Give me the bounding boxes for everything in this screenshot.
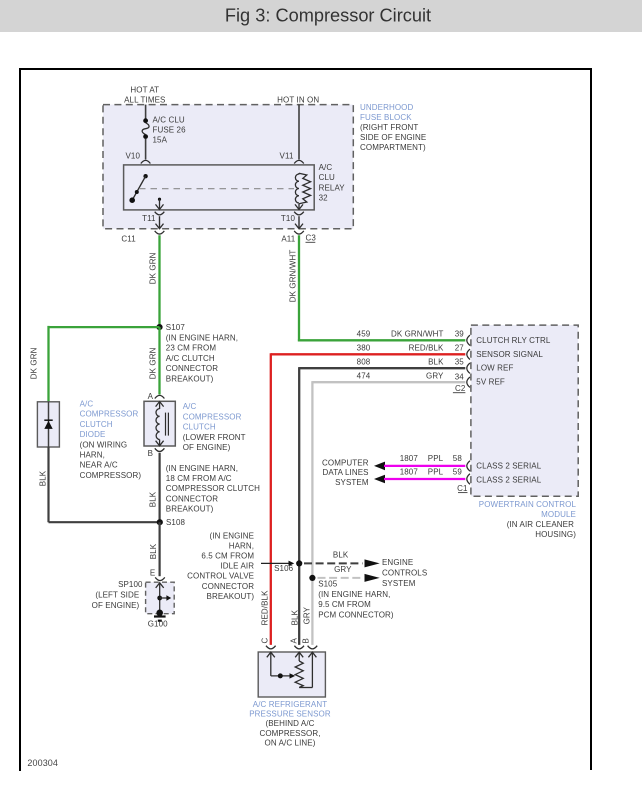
pin 59 [453,467,542,484]
svg-text:SENSOR SIGNAL: SENSOR SIGNAL [476,350,543,359]
svg-text:IDLE AIR: IDLE AIR [220,562,254,571]
svg-text:HARN,: HARN, [80,451,105,460]
svg-text:C3: C3 [306,234,317,243]
svg-text:9.5 CM FROM: 9.5 CM FROM [318,600,371,609]
svg-text:DK GRN/WHT: DK GRN/WHT [289,250,298,303]
svg-text:808: 808 [357,357,371,366]
pin 58 [453,454,542,471]
relay box A/C CLU RELAY 32 [124,163,346,210]
ground G100 [148,617,168,629]
svg-text:A: A [148,392,154,401]
wire PPL 1807 to pin 58 [374,454,465,470]
svg-text:A/C: A/C [319,163,333,172]
wire RED/BLK 380 to pin 27 [271,343,466,354]
splice S108 [157,518,186,527]
svg-text:SP100: SP100 [118,580,143,589]
connector V10 [125,152,150,177]
splice S105 [309,575,394,619]
PCM box (POWERTRAIN CONTROL MODULE) [471,325,578,539]
svg-text:(IN ENGINE HARN,: (IN ENGINE HARN, [166,464,238,473]
splice pack SP100 box [92,580,175,616]
svg-text:GRY: GRY [303,606,312,624]
svg-text:S106: S106 [274,564,294,573]
svg-text:A/C CLUTCH: A/C CLUTCH [166,354,215,363]
svg-text:GRY: GRY [426,371,444,380]
svg-text:6.5 CM FROM: 6.5 CM FROM [201,552,254,561]
diode label text [80,399,142,480]
connector A (clutch) [148,392,165,401]
connector T10 [281,212,304,229]
harness note at clutch B [166,464,260,514]
wire BLK diode to S108 [39,447,160,522]
svg-text:27: 27 [455,343,465,352]
svg-text:HOT IN ON: HOT IN ON [277,95,319,104]
svg-text:V11: V11 [280,152,294,161]
svg-text:COMPRESSOR CLUTCH: COMPRESSOR CLUTCH [166,484,260,493]
svg-text:C: C [261,638,270,644]
pin 35 [455,357,514,373]
wire DK GRN S107 to clutch A [149,327,160,394]
relay coil [295,173,311,210]
sensor pin C [261,638,276,649]
engine controls system node [382,558,427,588]
pin 39 [455,329,551,345]
svg-text:1807: 1807 [400,454,419,463]
clutch coil symbol [156,409,169,446]
svg-text:39: 39 [455,329,465,338]
svg-text:DIODE: DIODE [80,430,106,439]
svg-text:DK GRN/WHT: DK GRN/WHT [391,329,444,338]
svg-text:CLU: CLU [319,173,335,182]
svg-text:ON A/C LINE): ON A/C LINE) [265,739,316,748]
fuse block box (UNDERHOOD FUSE BLOCK) [103,103,426,229]
svg-text:CLUTCH: CLUTCH [80,420,113,429]
svg-text:5V REF: 5V REF [476,378,505,387]
svg-text:POWERTRAIN CONTROL: POWERTRAIN CONTROL [479,500,577,509]
wire BLK 808 to pin 35 [299,357,465,368]
svg-text:1807: 1807 [400,467,419,476]
sensor pin A [290,638,305,649]
svg-text:380: 380 [357,343,371,352]
wire DK GRN C11 to S107 [149,235,160,327]
svg-text:ALL TIMES: ALL TIMES [124,95,165,104]
svg-text:COMPRESSOR): COMPRESSOR) [80,471,142,480]
svg-text:COMPRESSOR,: COMPRESSOR, [259,729,320,738]
sensor wiper branch [271,673,295,678]
dashed GRY branch to engine controls [318,565,380,582]
svg-text:DATA LINES: DATA LINES [323,468,369,477]
svg-text:UNDERHOOD: UNDERHOOD [360,103,413,112]
svg-text:SYSTEM: SYSTEM [382,579,416,588]
svg-text:BLK: BLK [290,609,299,625]
fuse A/C CLU FUSE 26 15A [142,116,186,145]
svg-text:G100: G100 [148,620,168,629]
svg-text:CLUTCH: CLUTCH [183,423,216,432]
svg-text:Fig 3: Compressor Circuit: Fig 3: Compressor Circuit [225,6,431,26]
pin 27 [455,343,544,359]
sensor resistor [295,661,312,688]
clutch label text [183,402,246,452]
svg-text:CONTROL VALVE: CONTROL VALVE [187,572,254,581]
svg-text:BLK: BLK [149,491,158,507]
pressure sensor box [258,652,325,697]
svg-text:23 CM FROM: 23 CM FROM [166,344,217,353]
svg-text:15A: 15A [153,135,168,144]
svg-text:LOW REF: LOW REF [476,364,513,373]
svg-text:PPL: PPL [428,454,444,463]
svg-text:HARN,: HARN, [229,541,254,550]
diode box (A/C COMPRESSOR CLUTCH DIODE) [37,402,59,447]
svg-text:NEAR A/C: NEAR A/C [80,461,118,470]
relay switch [129,174,147,203]
svg-text:HOUSING): HOUSING) [535,530,576,539]
svg-text:BREAKOUT): BREAKOUT) [166,374,214,383]
svg-text:(LOWER FRONT: (LOWER FRONT [183,433,246,442]
svg-text:A: A [290,638,299,644]
wire GRY 474 to pin 34 [312,371,465,382]
connector label C1 [457,484,468,493]
connector V11 [280,105,304,174]
sensor pin B [301,638,317,649]
svg-text:GRY: GRY [334,565,352,574]
svg-text:FUSE BLOCK: FUSE BLOCK [360,113,412,122]
svg-text:DK GRN: DK GRN [149,347,158,379]
svg-text:(IN ENGINE: (IN ENGINE [210,531,255,540]
svg-text:T10: T10 [281,214,296,223]
svg-text:C11: C11 [121,235,136,244]
svg-text:SYSTEM: SYSTEM [335,478,369,487]
svg-text:CONNECTOR: CONNECTOR [166,494,218,503]
svg-text:CLASS 2 SERIAL: CLASS 2 SERIAL [476,475,541,484]
svg-text:V10: V10 [125,152,140,161]
connector C11 [121,231,164,244]
svg-text:(RIGHT FRONT: (RIGHT FRONT [360,123,418,132]
connector T11 [142,212,164,229]
svg-text:35: 35 [455,357,465,366]
svg-text:A/C: A/C [80,399,94,408]
svg-text:C1: C1 [457,484,468,493]
svg-text:S107: S107 [166,323,186,332]
svg-text:PCM CONNECTOR): PCM CONNECTOR) [318,610,394,619]
clutch box A/C COMPRESSOR CLUTCH [144,401,175,446]
svg-text:34: 34 [455,373,465,382]
svg-text:RED/BLK: RED/BLK [409,343,444,352]
wire fuse to V10 [145,139,147,160]
wire BLK clutch B to S108 [149,453,160,522]
pin 34 [455,373,505,388]
wire DK GRN/WHT 459 to pin 39 [298,329,465,340]
svg-text:RELAY: RELAY [319,183,346,192]
svg-text:BREAKOUT): BREAKOUT) [166,505,214,514]
harness note pointing to S106 [187,531,294,601]
wire BLK vertical to sensor A [290,367,299,645]
svg-text:(LEFT SIDE: (LEFT SIDE [95,590,139,599]
connector label C2 [453,384,466,393]
svg-text:474: 474 [357,371,371,380]
svg-text:HOT AT: HOT AT [130,86,159,95]
svg-text:A/C REFRIGERANT: A/C REFRIGERANT [253,700,327,709]
svg-text:COMPRESSOR: COMPRESSOR [183,412,242,421]
wire PPL 1807 to pin 59 [374,467,465,483]
svg-text:COMPRESSOR: COMPRESSOR [80,410,139,419]
svg-text:PRESSURE SENSOR: PRESSURE SENSOR [249,709,331,718]
svg-text:DK GRN: DK GRN [149,252,158,284]
connector label C3 [306,234,317,243]
svg-text:59: 59 [453,467,463,476]
relay switch output to T11 [156,198,164,210]
svg-text:SIDE OF ENGINE: SIDE OF ENGINE [360,133,426,142]
diode symbol [44,420,52,429]
splice S107 [156,323,238,383]
svg-text:BLK: BLK [149,543,158,559]
svg-text:A11: A11 [281,235,295,244]
svg-text:COMPUTER: COMPUTER [322,458,369,467]
svg-text:(IN ENGINE HARN,: (IN ENGINE HARN, [318,590,390,599]
svg-text:FUSE 26: FUSE 26 [153,125,187,134]
wire DK GRN S107 branch left [29,326,159,402]
svg-text:CLASS 2 SERIAL: CLASS 2 SERIAL [476,461,541,470]
page border frame [20,69,591,771]
wire BLK S108 to E [149,522,160,576]
relay actuation dashed line [139,188,294,190]
wire DK GRN/WHT A11 to PCM corner [289,235,300,341]
svg-text:S105: S105 [318,580,338,589]
svg-text:200304: 200304 [27,758,58,768]
wire from fuse block top to fuse F26 [145,105,147,119]
dashed BLK branch to engine controls [304,551,380,568]
title bar [0,0,642,32]
svg-text:CONNECTOR: CONNECTOR [202,582,254,591]
svg-text:CLUTCH RLY CTRL: CLUTCH RLY CTRL [476,336,551,345]
svg-text:58: 58 [453,454,463,463]
connector E [150,569,165,581]
svg-text:PPL: PPL [428,467,444,476]
svg-text:BLK: BLK [39,470,48,486]
svg-text:A/C CLU: A/C CLU [153,116,185,125]
svg-text:B: B [148,449,153,458]
svg-text:COMPARTMENT): COMPARTMENT) [360,143,426,152]
wire GRY vertical to sensor B [303,381,313,645]
connector A11 [281,231,303,244]
svg-text:T11: T11 [142,214,156,223]
svg-text:C2: C2 [455,384,466,393]
svg-text:(IN AIR CLEANER: (IN AIR CLEANER [507,520,574,529]
svg-text:DK GRN: DK GRN [29,347,38,379]
splice S106 [274,560,302,573]
svg-text:(ON WIRING: (ON WIRING [80,440,128,449]
svg-text:CONNECTOR: CONNECTOR [166,364,218,373]
svg-text:MODULE: MODULE [541,510,576,519]
svg-text:S108: S108 [166,518,186,527]
svg-text:B: B [301,638,310,643]
svg-text:CONTROLS: CONTROLS [382,569,427,578]
svg-text:RED/BLK: RED/BLK [260,590,269,625]
sensor label text [249,700,331,748]
svg-text:BLK: BLK [428,357,444,366]
svg-text:(IN ENGINE HARN,: (IN ENGINE HARN, [166,334,238,343]
svg-text:E: E [150,569,155,578]
connector B (clutch) [148,448,165,458]
svg-text:32: 32 [319,194,329,203]
svg-text:ENGINE: ENGINE [382,558,413,567]
computer data lines system node [322,458,369,487]
svg-text:OF ENGINE): OF ENGINE) [92,601,140,610]
svg-text:BREAKOUT): BREAKOUT) [207,592,255,601]
svg-text:(BEHIND A/C: (BEHIND A/C [265,719,314,728]
svg-text:BLK: BLK [333,551,349,560]
wire RED/BLK vertical to sensor C [260,353,271,645]
svg-text:18 CM FROM A/C: 18 CM FROM A/C [166,474,232,483]
svg-text:459: 459 [357,329,371,338]
svg-text:A/C: A/C [183,402,197,411]
svg-text:OF ENGINE): OF ENGINE) [183,443,231,452]
node HOT AT ALL TIMES [124,86,165,105]
